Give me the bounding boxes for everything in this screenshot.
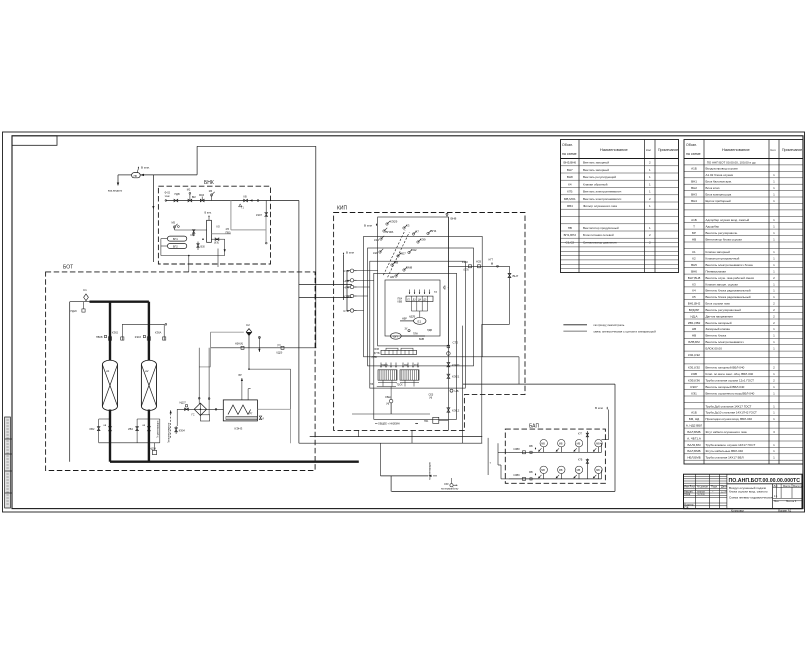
svg-text:Вентиль осушенного возд ВБЛ-04: Вентиль осушенного возд ВБЛ-040	[706, 391, 755, 395]
svg-text:БЛВ,БМ: БЛВ,БМ	[688, 340, 700, 344]
svg-text:ДУ7Б: ДУ7Б	[374, 352, 380, 355]
svg-text:КЭ29: КЭ29	[390, 220, 398, 224]
svg-text:Адсорбер осушки возд. сжатый: Адсорбер осушки возд. сжатый	[706, 218, 750, 222]
svg-text:БАЛ,БМБ: БАЛ,БМБ	[687, 430, 700, 434]
svg-text:НБ: НБ	[455, 389, 459, 393]
svg-text:В30: В30	[201, 246, 206, 249]
sensor C2	[246, 329, 252, 336]
KIP bus loop 5	[374, 273, 457, 419]
BP bracket wires	[161, 238, 168, 240]
svg-text:Блок осушки газа: Блок осушки газа	[706, 302, 730, 306]
sensor tails to bus	[357, 270, 378, 272]
svg-text:ВН7: ВН7	[513, 274, 519, 278]
gauge MV13	[575, 440, 582, 447]
svg-text:Вентиль запорный: Вентиль запорный	[706, 321, 732, 325]
svg-text:БМ, НД: БМ, НД	[689, 417, 699, 421]
filter T01 diamond	[194, 403, 206, 415]
svg-text:Обозн.: Обозн.	[562, 143, 573, 147]
BNK inlet line	[166, 200, 299, 202]
svg-text:ПО АНП БОТ 00.00.00, 100,00 и: ПО АНП БОТ 00.00.00, 100,00 и др.	[707, 160, 757, 164]
svg-text:БЛОК.00.00: БЛОК.00.00	[706, 347, 723, 351]
riser from KIP bottom left	[357, 430, 359, 436]
left sensor K7E	[350, 309, 353, 312]
heater KEN3	[223, 400, 257, 421]
legend: pneumatic line	[563, 324, 587, 326]
BAP left feed lines	[505, 451, 509, 453]
svg-text:А2: А2	[144, 369, 149, 373]
svg-text:Прокладки осушки возд. ВБЛ-040: Прокладки осушки возд. ВБЛ-040	[706, 417, 753, 421]
gauge MV23	[575, 466, 582, 473]
svg-text:Вентилятор блока осушки: Вентилятор блока осушки	[706, 237, 743, 241]
svg-text:БРД,БР: БРД,БР	[689, 308, 700, 312]
svg-text:Схема пневмо-гидравлическая: Схема пневмо-гидравлическая	[729, 496, 773, 500]
riser to lower blocks	[188, 256, 190, 272]
svg-text:К7: К7	[416, 230, 420, 234]
valve VP4	[427, 232, 429, 234]
power supply BP1	[167, 236, 186, 241]
svg-text:ВП4Б: ВП4Б	[386, 230, 394, 234]
svg-text:В атм.: В атм.	[205, 212, 213, 215]
valve K20	[379, 251, 381, 253]
svg-text:К5: К5	[692, 295, 696, 299]
svg-text:Вентиль регулирующий: Вентиль регулирующий	[583, 175, 616, 179]
svg-text:М1Б: М1Б	[199, 194, 204, 197]
svg-text:Вентиль регулировочн.: Вентиль регулировочн.	[706, 231, 739, 235]
fan PV	[132, 173, 141, 178]
svg-text:КЭ03: КЭ03	[135, 336, 142, 339]
BAP right connect	[601, 443, 603, 452]
oval E1	[414, 318, 426, 325]
svg-text:КЭ20: КЭ20	[452, 363, 460, 367]
svg-text:ИВ4: ИВ4	[128, 428, 133, 431]
svg-text:НД0А: НД0А	[150, 447, 157, 450]
svg-text:НБЛ,БМБ: НБЛ,БМБ	[687, 456, 700, 460]
svg-text:ПДВ: ПДВ	[427, 329, 432, 332]
riser from KIP bottom x462	[462, 326, 464, 444]
sheet outer border	[3, 132, 805, 512]
svg-text:ВН6: ВН6	[691, 269, 697, 273]
svg-text:КЭ12: КЭ12	[452, 408, 460, 412]
node on line to heater	[215, 408, 217, 410]
svg-text:КЭ2: КЭ2	[411, 248, 417, 252]
valve NV	[391, 264, 393, 266]
svg-text:Вентиль запорный: Вентиль запорный	[583, 161, 609, 165]
heater terminals	[241, 378, 243, 400]
main regen line through T01	[177, 408, 223, 410]
valve KE12	[447, 408, 450, 412]
svg-text:Дата: Дата	[721, 485, 727, 489]
svg-text:связь электрическая с щитом и: связь электрическая с щитом и аппаратуро…	[594, 330, 657, 334]
parts table 1 (left)	[561, 140, 679, 273]
svg-text:К10: К10	[374, 238, 379, 242]
svg-text:Петров: Петров	[697, 494, 705, 496]
left drop pipe	[69, 302, 71, 462]
svg-text:Н01: Н01	[424, 420, 429, 423]
svg-text:Блок компрессора: Блок компрессора	[706, 192, 732, 196]
svg-text:ВП4: ВП4	[431, 229, 437, 233]
drain assembly A1	[99, 418, 110, 420]
svg-text:ФВ4: ФВ4	[567, 204, 573, 208]
svg-text:НГ4: НГ4	[344, 286, 350, 290]
svg-text:КЭВ9: КЭВ9	[514, 474, 521, 477]
svg-text:Жгут кабеля осушенного газа: Жгут кабеля осушенного газа	[706, 430, 747, 434]
svg-text:(СЭ): (СЭ)	[464, 269, 469, 272]
svg-text:Клап. эл.магн. вент. общ. ВБЛ-: Клап. эл.магн. вент. общ. ВБЛ-040	[706, 372, 754, 376]
svg-text:КВ: КВ	[244, 196, 247, 199]
svg-text:К1: К1	[692, 250, 696, 254]
svg-text:К7Г: К7Г	[578, 433, 583, 436]
relay box NO1	[433, 417, 439, 423]
svg-text:СТ2: СТ2	[453, 341, 459, 345]
svg-text:Вентиль блока радиоканальный: Вентиль блока радиоканальный	[706, 289, 751, 293]
svg-text:ВН8: ВН8	[451, 217, 457, 221]
svg-text:вид жидкого: вид жидкого	[108, 190, 123, 193]
svg-text:Фильтр осушенного газа: Фильтр осушенного газа	[583, 204, 617, 208]
svg-text:[4]: [4]	[387, 403, 390, 406]
svg-text:А1.02 блока осушки: А1.02 блока осушки	[706, 173, 734, 177]
svg-text:НД7Б: НД7Б	[409, 316, 416, 319]
svg-text:КЭВ8: КЭВ8	[514, 448, 521, 451]
condensate drain arrow	[118, 174, 132, 176]
valve KE04	[175, 428, 178, 432]
svg-text:МВ: МВ	[559, 469, 563, 472]
parts table 2 (right)	[684, 140, 803, 465]
wire top loop from BNK to fan PV	[196, 146, 198, 175]
svg-text:Щиток приборный: Щиток приборный	[706, 199, 731, 203]
power supply BP2	[167, 244, 186, 249]
svg-text:ВН4: ВН4	[691, 199, 697, 203]
svg-text:БЛ8: БЛ8	[375, 348, 380, 351]
gauge MV14	[595, 440, 602, 447]
svg-text:ОБЩЕЕ + НАЗЕМН: ОБЩЕЕ + НАЗЕМН	[378, 423, 400, 426]
svg-text:НВ: НВ	[692, 327, 696, 331]
svg-text:ВН8: ВН8	[567, 175, 573, 179]
left sensor K7Z	[350, 294, 353, 297]
svg-text:Клапан обратный: Клапан обратный	[583, 182, 608, 186]
svg-text:Лист: Лист	[774, 500, 780, 503]
svg-text:КЭ07: КЭ07	[256, 214, 263, 217]
terminal strip SIVD	[381, 350, 417, 354]
gauge KD20	[281, 346, 284, 349]
svg-text:Блок балонов арм.: Блок балонов арм.	[706, 180, 732, 184]
svg-text:на переработку: на переработку	[441, 488, 459, 491]
valve KE at receiver bottom	[211, 238, 224, 240]
literature/mass/scale sub-table	[772, 484, 774, 509]
valve V30	[197, 242, 199, 251]
drawing inner frame	[12, 136, 803, 509]
svg-text:С1,С2: С1,С2	[566, 240, 575, 244]
connector block ShR1	[378, 370, 397, 380]
svg-text:ПО.АНП.БОТ.00.00.00.000ТС: ПО.АНП.БОТ.00.00.00.000ТС	[729, 478, 801, 484]
svg-text:К4: К4	[568, 182, 572, 186]
svg-text:Вентиль регулировочный: Вентиль регулировочный	[706, 308, 742, 312]
branch down from C2 line	[248, 348, 250, 369]
grey pilot lines	[211, 331, 244, 333]
svg-text:БМ8: БМ8	[406, 266, 412, 270]
svg-text:А1Б: А1Б	[691, 167, 697, 171]
svg-text:МВ: МВ	[559, 442, 563, 445]
svg-text:БАП: БАП	[529, 424, 539, 430]
regeneration outlet arrow	[380, 443, 382, 476]
valve KE02 on bypass	[121, 324, 123, 340]
svg-text:Блок питания сетевой: Блок питания сетевой	[583, 233, 614, 237]
svg-text:Примечание: Примечание	[782, 148, 802, 152]
svg-text:НД37: НД37	[180, 402, 187, 405]
heater plate	[226, 417, 257, 420]
svg-text:Запорный клапан: Запорный клапан	[706, 327, 731, 331]
svg-text:К20: К20	[373, 251, 378, 255]
svg-text:ВН2: ВН2	[691, 186, 697, 190]
svg-text:МВ: МВ	[577, 469, 581, 472]
svg-text:КЭН3: КЭН3	[235, 426, 243, 430]
riser x412	[411, 430, 413, 443]
svg-text:Вентиль запорный: Вентиль запорный	[583, 168, 609, 172]
svg-text:МВ: МВ	[596, 469, 600, 472]
valve VP4B	[383, 230, 385, 232]
thick header pipe	[90, 301, 149, 303]
left margin graph strip	[5, 417, 11, 508]
svg-text:КЭ02: КЭ02	[462, 261, 468, 264]
gauge MV21	[540, 466, 547, 473]
svg-text:А1Б: А1Б	[691, 218, 697, 222]
svg-text:В атм: В атм	[595, 406, 603, 410]
gauge ND3A	[241, 346, 244, 349]
drop connectors row	[409, 290, 411, 295]
valve KE07 drop	[265, 201, 267, 244]
svg-text:Листов 1: Листов 1	[786, 500, 797, 503]
svg-text:КЭ04: КЭ04	[179, 429, 186, 432]
svg-text:Труба алюмин. осушки 14Х17 ГОС: Труба алюмин. осушки 14Х17 ГОСТ	[706, 443, 756, 447]
svg-text:ГС: ГС	[192, 414, 195, 417]
svg-text:12.04: 12.04	[721, 492, 727, 494]
gauge MV22	[558, 466, 565, 473]
KIP bus loop 3	[368, 248, 474, 366]
gauge MV12	[558, 440, 565, 447]
sensing wires to KIP left	[299, 284, 352, 286]
svg-text:ОЗУ: ОЗУ	[444, 483, 449, 486]
svg-text:Копировал: Копировал	[731, 509, 744, 513]
gauge ND20	[82, 309, 85, 312]
svg-text:Датчик напряжения: Датчик напряжения	[706, 314, 734, 318]
mechanical linkage dashed diagonals	[383, 230, 405, 275]
svg-text:Кол: Кол	[646, 148, 651, 152]
big enclosure box right	[463, 383, 615, 385]
svg-text:А1Б: А1Б	[691, 411, 697, 415]
BAP row 1 header line	[509, 451, 602, 453]
KIP bus loop 4	[370, 261, 466, 388]
svg-text:№ докум.: № докум.	[697, 486, 709, 489]
svg-text:К3: К3	[692, 282, 696, 286]
VN7 route down	[482, 323, 510, 325]
svg-text:Наименование: Наименование	[600, 147, 629, 152]
svg-text:Сигнализатор давления: Сигнализатор давления	[583, 240, 617, 244]
svg-text:[4]: [4]	[430, 397, 433, 400]
svg-text:ВН7,ВН8: ВН7,ВН8	[688, 276, 701, 280]
svg-text:ОБЩ: ОБЩ	[385, 396, 391, 399]
svg-text:К7Б: К7Б	[578, 459, 583, 462]
svg-text:Пневмоклапан: Пневмоклапан	[706, 269, 727, 273]
regeneration dashed pipe	[170, 410, 172, 438]
svg-text:НВ: НВ	[692, 334, 696, 338]
KIP top-right outlet line	[448, 265, 509, 267]
OZU drain	[450, 484, 453, 487]
thick bottom collector pipe	[110, 461, 359, 463]
svg-text:Пров.: Пров.	[684, 492, 691, 496]
svg-text:БП1,БП2: БП1,БП2	[564, 233, 577, 237]
svg-text:А, НД2 ВБЛ: А, НД2 ВБЛ	[686, 424, 702, 428]
valve NE7	[397, 255, 399, 257]
valve KE2	[408, 251, 410, 253]
svg-text:БР: БР	[692, 231, 696, 235]
revision stamp box top-left	[12, 136, 57, 146]
svg-text:В атм: В атм	[364, 224, 372, 228]
svg-text:НГВ: НГВ	[344, 279, 350, 283]
svg-text:НЗН(Х): НЗН(Х)	[235, 343, 243, 346]
svg-text:Вентиль электропневматич: Вентиль электропневматич	[583, 197, 622, 201]
svg-text:С1: С1	[83, 288, 87, 292]
adsorber A1	[102, 360, 117, 410]
svg-text:КЭ1: КЭ1	[691, 391, 697, 395]
svg-text:БНК: БНК	[204, 180, 214, 186]
svg-text:ВН7: ВН7	[567, 168, 573, 172]
valve K7	[412, 233, 414, 235]
svg-text:Вентиль запорный ВБЛ-040: Вентиль запорный ВБЛ-040	[706, 366, 745, 370]
svg-text:ПЗ: ПЗ	[370, 383, 374, 386]
title block (main inscription)	[684, 474, 803, 509]
svg-text:МВ: МВ	[577, 442, 581, 445]
svg-text:МВ: МВ	[529, 445, 533, 448]
valve VN7 on drop	[509, 266, 511, 324]
svg-text:Кол: Кол	[771, 148, 776, 152]
svg-text:К2: К2	[692, 257, 696, 261]
svg-text:ВР: ВР	[239, 374, 243, 377]
receiver vent	[208, 218, 210, 221]
valve KE21	[447, 374, 450, 378]
svg-text:ВН3: ВН3	[691, 192, 697, 196]
svg-text:КО: КО	[217, 226, 220, 229]
KIP bus loop 1	[378, 217, 449, 346]
bottom rail	[161, 255, 225, 257]
box under T01	[200, 415, 209, 421]
svg-text:КЭ5,КЭ6: КЭ5,КЭ6	[688, 379, 700, 383]
svg-text:Вентиль осуш. газа рабочей сме: Вентиль осуш. газа рабочей смеси	[706, 276, 755, 280]
valve NB low	[395, 275, 397, 277]
svg-text:ПВ0: ПВ0	[226, 232, 231, 235]
svg-text:Труба стальная осушки 12х1 ГОС: Труба стальная осушки 12х1 ГОСТ	[706, 379, 755, 383]
block BNK dashed boundary	[158, 186, 270, 264]
svg-text:КЭ1,КЭ2: КЭ1,КЭ2	[688, 366, 700, 370]
bypass line	[122, 323, 164, 325]
adsorber A2 outlet pipe	[148, 410, 150, 462]
svg-text:Клапан регулировочный: Клапан регулировочный	[706, 257, 740, 261]
drain assembly A2	[137, 418, 160, 420]
svg-text:Обозн.: Обозн.	[686, 143, 697, 147]
svg-text:М5: М5	[172, 222, 176, 225]
valve KE29	[386, 223, 388, 225]
regeneration header	[99, 442, 160, 444]
adsorber A2	[141, 360, 156, 410]
svg-text:КЭВ: КЭВ	[691, 372, 697, 376]
svg-text:НД20: НД20	[71, 310, 78, 313]
svg-text:МВ: МВ	[596, 442, 600, 445]
svg-text:КЭ0А: КЭ0А	[155, 331, 162, 334]
valve KE02 SE	[469, 265, 472, 268]
svg-text:БМВ: БМВ	[419, 338, 425, 341]
wire M5 to receiver	[174, 229, 206, 231]
adsorber A1 outlet pipe	[109, 410, 111, 462]
lower interconnect wires	[310, 436, 483, 438]
gauge K02	[447, 352, 451, 356]
svg-text:ТЗСК: ТЗСК	[397, 384, 404, 387]
svg-text:КИП: КИП	[337, 206, 348, 212]
svg-text:Вентилятор продувочный: Вентилятор продувочный	[583, 226, 619, 230]
valve K10b	[380, 238, 382, 240]
svg-text:Е1: Е1	[418, 319, 422, 323]
svg-text:Клапан запорный: Клапан запорный	[706, 250, 731, 254]
block pedestal	[378, 382, 397, 384]
wire BNK to riser	[298, 201, 300, 444]
block BAP dashed boundary	[505, 429, 605, 483]
heater drain valve	[259, 416, 262, 420]
svg-text:газ (возд.) магистраль: газ (возд.) магистраль	[594, 323, 625, 327]
svg-text:ПВ: ПВ	[568, 226, 572, 230]
gauge MV11	[540, 440, 547, 447]
svg-text:К7Б: К7Б	[567, 190, 572, 194]
valve K7G	[586, 431, 588, 452]
svg-text:ПВ: ПВ	[134, 175, 138, 178]
svg-text:ИВ2: ИВ2	[90, 428, 95, 431]
left sensor NGV	[350, 279, 353, 282]
svg-text:БАЛ2,БМ: БАЛ2,БМ	[688, 443, 701, 447]
left sensor K7V	[350, 269, 353, 272]
block KIP dashed boundary	[334, 213, 525, 431]
valve KE20	[447, 362, 450, 366]
svg-text:МВ,МО1: МВ,МО1	[564, 197, 576, 201]
svg-text:ПЭ0Н: ПЭ0Н	[381, 364, 388, 367]
svg-text:С2: С2	[246, 323, 250, 327]
svg-text:К7В: К7В	[344, 269, 349, 273]
svg-text:Труба стальная 14Х17 ВБЛ: Труба стальная 14Х17 ВБЛ	[706, 456, 744, 460]
svg-text:КЭ9: КЭ9	[420, 238, 426, 242]
gauge MV24	[595, 466, 602, 473]
svg-text:В атм.: В атм.	[141, 166, 150, 170]
svg-text:Масса: Масса	[783, 485, 791, 488]
adsorber A2 inlet pipe	[148, 302, 150, 361]
svg-text:Т: Т	[693, 225, 695, 229]
svg-text:БП2: БП2	[173, 246, 178, 249]
svg-text:МВ: МВ	[541, 442, 545, 445]
svg-text:Гн регенерации: Гн регенерации	[156, 420, 159, 438]
svg-text:КЭ02: КЭ02	[112, 331, 119, 334]
svg-text:НВ0В: НВ0В	[96, 336, 103, 339]
svg-text:Наименование: Наименование	[722, 147, 751, 152]
purge feed riser	[152, 175, 154, 262]
valve K3	[403, 227, 405, 229]
sensor wires	[347, 270, 350, 272]
pressure line ND30	[211, 347, 317, 349]
svg-text:ПИ: ПИ	[404, 364, 408, 367]
svg-text:на схеме: на схеме	[686, 152, 701, 156]
svg-text:А, ЧБГ1,А: А, ЧБГ1,А	[687, 436, 701, 440]
svg-text:Вентиль блока радиоканальный: Вентиль блока радиоканальный	[706, 295, 751, 299]
svg-text:(КЭ): (КЭ)	[214, 242, 219, 245]
svg-text:Примечание: Примечание	[658, 148, 678, 152]
svg-text:Формат А1: Формат А1	[778, 509, 792, 513]
receiver B01	[207, 220, 212, 242]
svg-text:на регенерацию: на регенерацию	[429, 462, 432, 480]
svg-text:НЕ7: НЕ7	[400, 252, 406, 256]
block BOT dashed boundary	[46, 272, 316, 471]
